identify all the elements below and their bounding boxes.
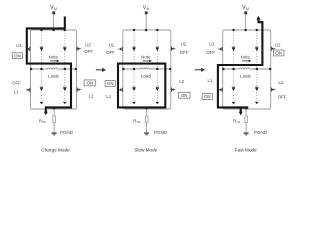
svg-text:OFF: OFF <box>206 50 215 55</box>
svg-text:Charge Mode: Charge Mode <box>41 148 70 153</box>
svg-text:ON: ON <box>14 53 21 58</box>
svg-text:Fast Mode: Fast Mode <box>235 148 258 153</box>
svg-text:M: M <box>147 7 150 11</box>
svg-text:ON: ON <box>87 81 94 86</box>
svg-text:PGND: PGND <box>60 130 74 135</box>
svg-text:OFF: OFF <box>180 50 189 55</box>
svg-text:U2: U2 <box>181 42 187 47</box>
svg-text:Note: Note <box>141 54 151 59</box>
svg-text:OFF: OFF <box>84 49 93 54</box>
svg-text:OFF: OFF <box>278 94 287 99</box>
svg-text:OFF: OFF <box>12 81 21 86</box>
svg-text:Note: Note <box>241 54 251 59</box>
svg-text:Note: Note <box>49 54 59 59</box>
svg-text:U2: U2 <box>275 43 281 48</box>
svg-text:ON: ON <box>107 81 114 86</box>
svg-text:ON: ON <box>204 94 211 99</box>
svg-text:L2: L2 <box>89 94 94 99</box>
svg-text:Load: Load <box>240 73 251 78</box>
svg-text:NF: NF <box>42 120 46 124</box>
svg-text:M: M <box>246 7 249 11</box>
svg-text:PGND: PGND <box>154 130 168 135</box>
svg-text:U1: U1 <box>109 43 115 48</box>
svg-text:NF: NF <box>237 120 241 124</box>
svg-text:OFF: OFF <box>106 50 115 55</box>
svg-text:U1: U1 <box>209 42 215 47</box>
svg-text:ON: ON <box>275 51 282 56</box>
svg-text:L1: L1 <box>208 78 213 83</box>
svg-text:L2: L2 <box>278 80 283 85</box>
svg-text:Load: Load <box>141 73 152 78</box>
svg-text:Load: Load <box>48 73 59 78</box>
svg-text:U2: U2 <box>85 43 91 48</box>
svg-text:L2: L2 <box>179 79 184 84</box>
svg-text:U1: U1 <box>16 43 22 48</box>
svg-text:L1: L1 <box>14 89 19 94</box>
svg-text:Slow Mode: Slow Mode <box>134 148 158 153</box>
svg-text:M: M <box>54 7 57 11</box>
svg-text:PGND: PGND <box>254 130 268 135</box>
svg-text:L1: L1 <box>106 94 111 99</box>
svg-text:ON: ON <box>181 93 188 98</box>
svg-text:NF: NF <box>137 120 141 124</box>
